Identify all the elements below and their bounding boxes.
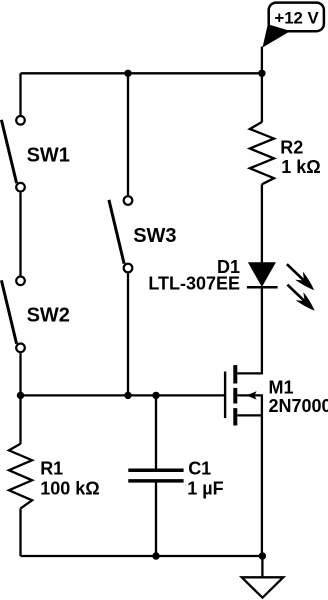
switch SW2 <box>1 277 24 353</box>
node junction gate wire / C1 branch <box>152 392 159 399</box>
wire C1 to bottom rail <box>155 482 157 556</box>
wire bottom rail <box>21 555 263 557</box>
svg-text:+12 V: +12 V <box>274 9 319 28</box>
wire gate <box>21 394 226 396</box>
resistor R2 <box>250 122 274 184</box>
svg-text:SW3: SW3 <box>133 225 176 247</box>
wire SW3 to gate wire <box>127 273 129 395</box>
wire top rail <box>21 72 262 74</box>
svg-text:SW1: SW1 <box>27 145 70 167</box>
wire SW2 down past gate junction to R1 <box>19 353 21 444</box>
svg-text:LTL-307EE: LTL-307EE <box>148 273 240 293</box>
resistor R1 <box>9 444 32 509</box>
ground <box>242 577 284 597</box>
LED D1 <box>247 262 278 287</box>
wire top rail down to SW1 <box>19 73 21 115</box>
svg-text:M1: M1 <box>269 377 294 397</box>
svg-text:100 kΩ: 100 kΩ <box>40 479 99 499</box>
wire SW1 to SW2 <box>19 193 21 276</box>
LED light arrow 1 <box>287 264 314 290</box>
switch SW3 <box>109 196 132 272</box>
svg-text:R1: R1 <box>40 458 63 478</box>
wire M1 source to bottom rail <box>261 415 263 556</box>
node junction bottom rail / C1 branch <box>152 552 159 559</box>
node junction bottom rail / ground <box>259 552 266 559</box>
power flag +12 V <box>263 3 324 48</box>
node junction top rail / +12V rail <box>258 70 265 77</box>
wire +12V flag down to top rail and R2 <box>261 47 263 123</box>
svg-text:SW2: SW2 <box>27 305 70 327</box>
wire LED cathode to M1 drain <box>237 287 262 373</box>
wire R2 to LED anode <box>261 184 263 263</box>
wire SW3 branch from top rail <box>127 73 129 195</box>
LED light arrow 2 <box>287 285 314 311</box>
wire bottom rail to ground <box>261 556 263 577</box>
node junction top rail / SW3 branch <box>124 70 131 77</box>
node junction gate wire / SW3 branch <box>124 392 131 399</box>
svg-text:1 µF: 1 µF <box>187 479 223 499</box>
transistor M1 (N-MOSFET) <box>225 365 262 425</box>
switch SW1 <box>1 116 24 192</box>
node junction left rail / gate wire <box>17 392 24 399</box>
wire C1 branch from gate wire <box>155 395 157 468</box>
svg-text:1 kΩ: 1 kΩ <box>281 157 320 177</box>
svg-text:2N7000: 2N7000 <box>269 396 328 416</box>
capacitor C1 <box>128 470 183 481</box>
svg-text:C1: C1 <box>188 458 211 478</box>
wire R1 to bottom rail <box>19 509 21 557</box>
svg-text:R2: R2 <box>280 137 303 157</box>
